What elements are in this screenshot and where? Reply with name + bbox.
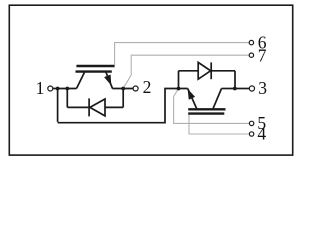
svg-text:1: 1: [36, 78, 45, 98]
svg-text:2: 2: [143, 77, 152, 97]
svg-text:4: 4: [257, 124, 266, 144]
svg-text:3: 3: [258, 78, 267, 98]
svg-text:7: 7: [258, 45, 267, 65]
